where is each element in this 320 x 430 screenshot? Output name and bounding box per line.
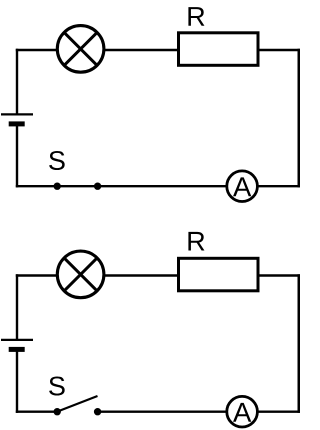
wire: left vertical lower (circuit 2): [16, 350, 18, 413]
wire: right vertical (circuit 2): [298, 274, 301, 413]
ammeter A letter (circuit 2): [233, 403, 251, 422]
ammeter A letter (circuit 1): [233, 177, 251, 196]
label S (circuit 1): [49, 151, 65, 170]
battery cell: short thick negative plate (circuit 2): [9, 347, 25, 352]
lamp L1 cross: [64, 32, 97, 65]
lamp L2 cross: [64, 258, 97, 291]
wire: right vertical (circuit 1): [298, 49, 301, 188]
resistor R (circuit 1): [179, 33, 259, 66]
wire: left vertical upper (circuit 2): [16, 274, 18, 340]
wire: bottom horizontal (circuit 1): [16, 185, 301, 187]
wire: switch to ammeter to right corner (circuit 2): [98, 411, 301, 413]
switch S open: lever arm (circuit 2): [57, 396, 97, 412]
switch S closed: contact node right (circuit 1): [94, 183, 101, 190]
switch S closed: contact node left (circuit 1): [54, 183, 61, 190]
wire: left vertical upper (circuit 1): [16, 49, 18, 115]
wire: bottom-left to switch (circuit 2): [16, 411, 57, 413]
wire: top horizontal (circuit 1): [16, 49, 301, 51]
ammeter A circle (circuit 1): [227, 171, 258, 202]
battery cell: long positive plate (circuit 1): [1, 113, 33, 115]
switch S open: contact node right (circuit 2): [94, 408, 101, 415]
wire: top horizontal (circuit 2): [16, 274, 301, 276]
resistor R (circuit 2): [179, 258, 259, 291]
wire: left vertical lower (circuit 1): [16, 124, 18, 187]
battery cell: long positive plate (circuit 2): [1, 339, 33, 341]
ammeter A circle (circuit 2): [227, 396, 258, 427]
lamp L1 circle: [57, 26, 104, 73]
battery cell: short thick negative plate (circuit 1): [9, 121, 25, 126]
label R (circuit 2): [188, 232, 204, 251]
switch S open: contact node left (circuit 2): [54, 408, 61, 415]
label S (circuit 2): [49, 376, 65, 395]
lamp L2 circle: [57, 251, 104, 298]
label R (circuit 1): [188, 7, 204, 26]
